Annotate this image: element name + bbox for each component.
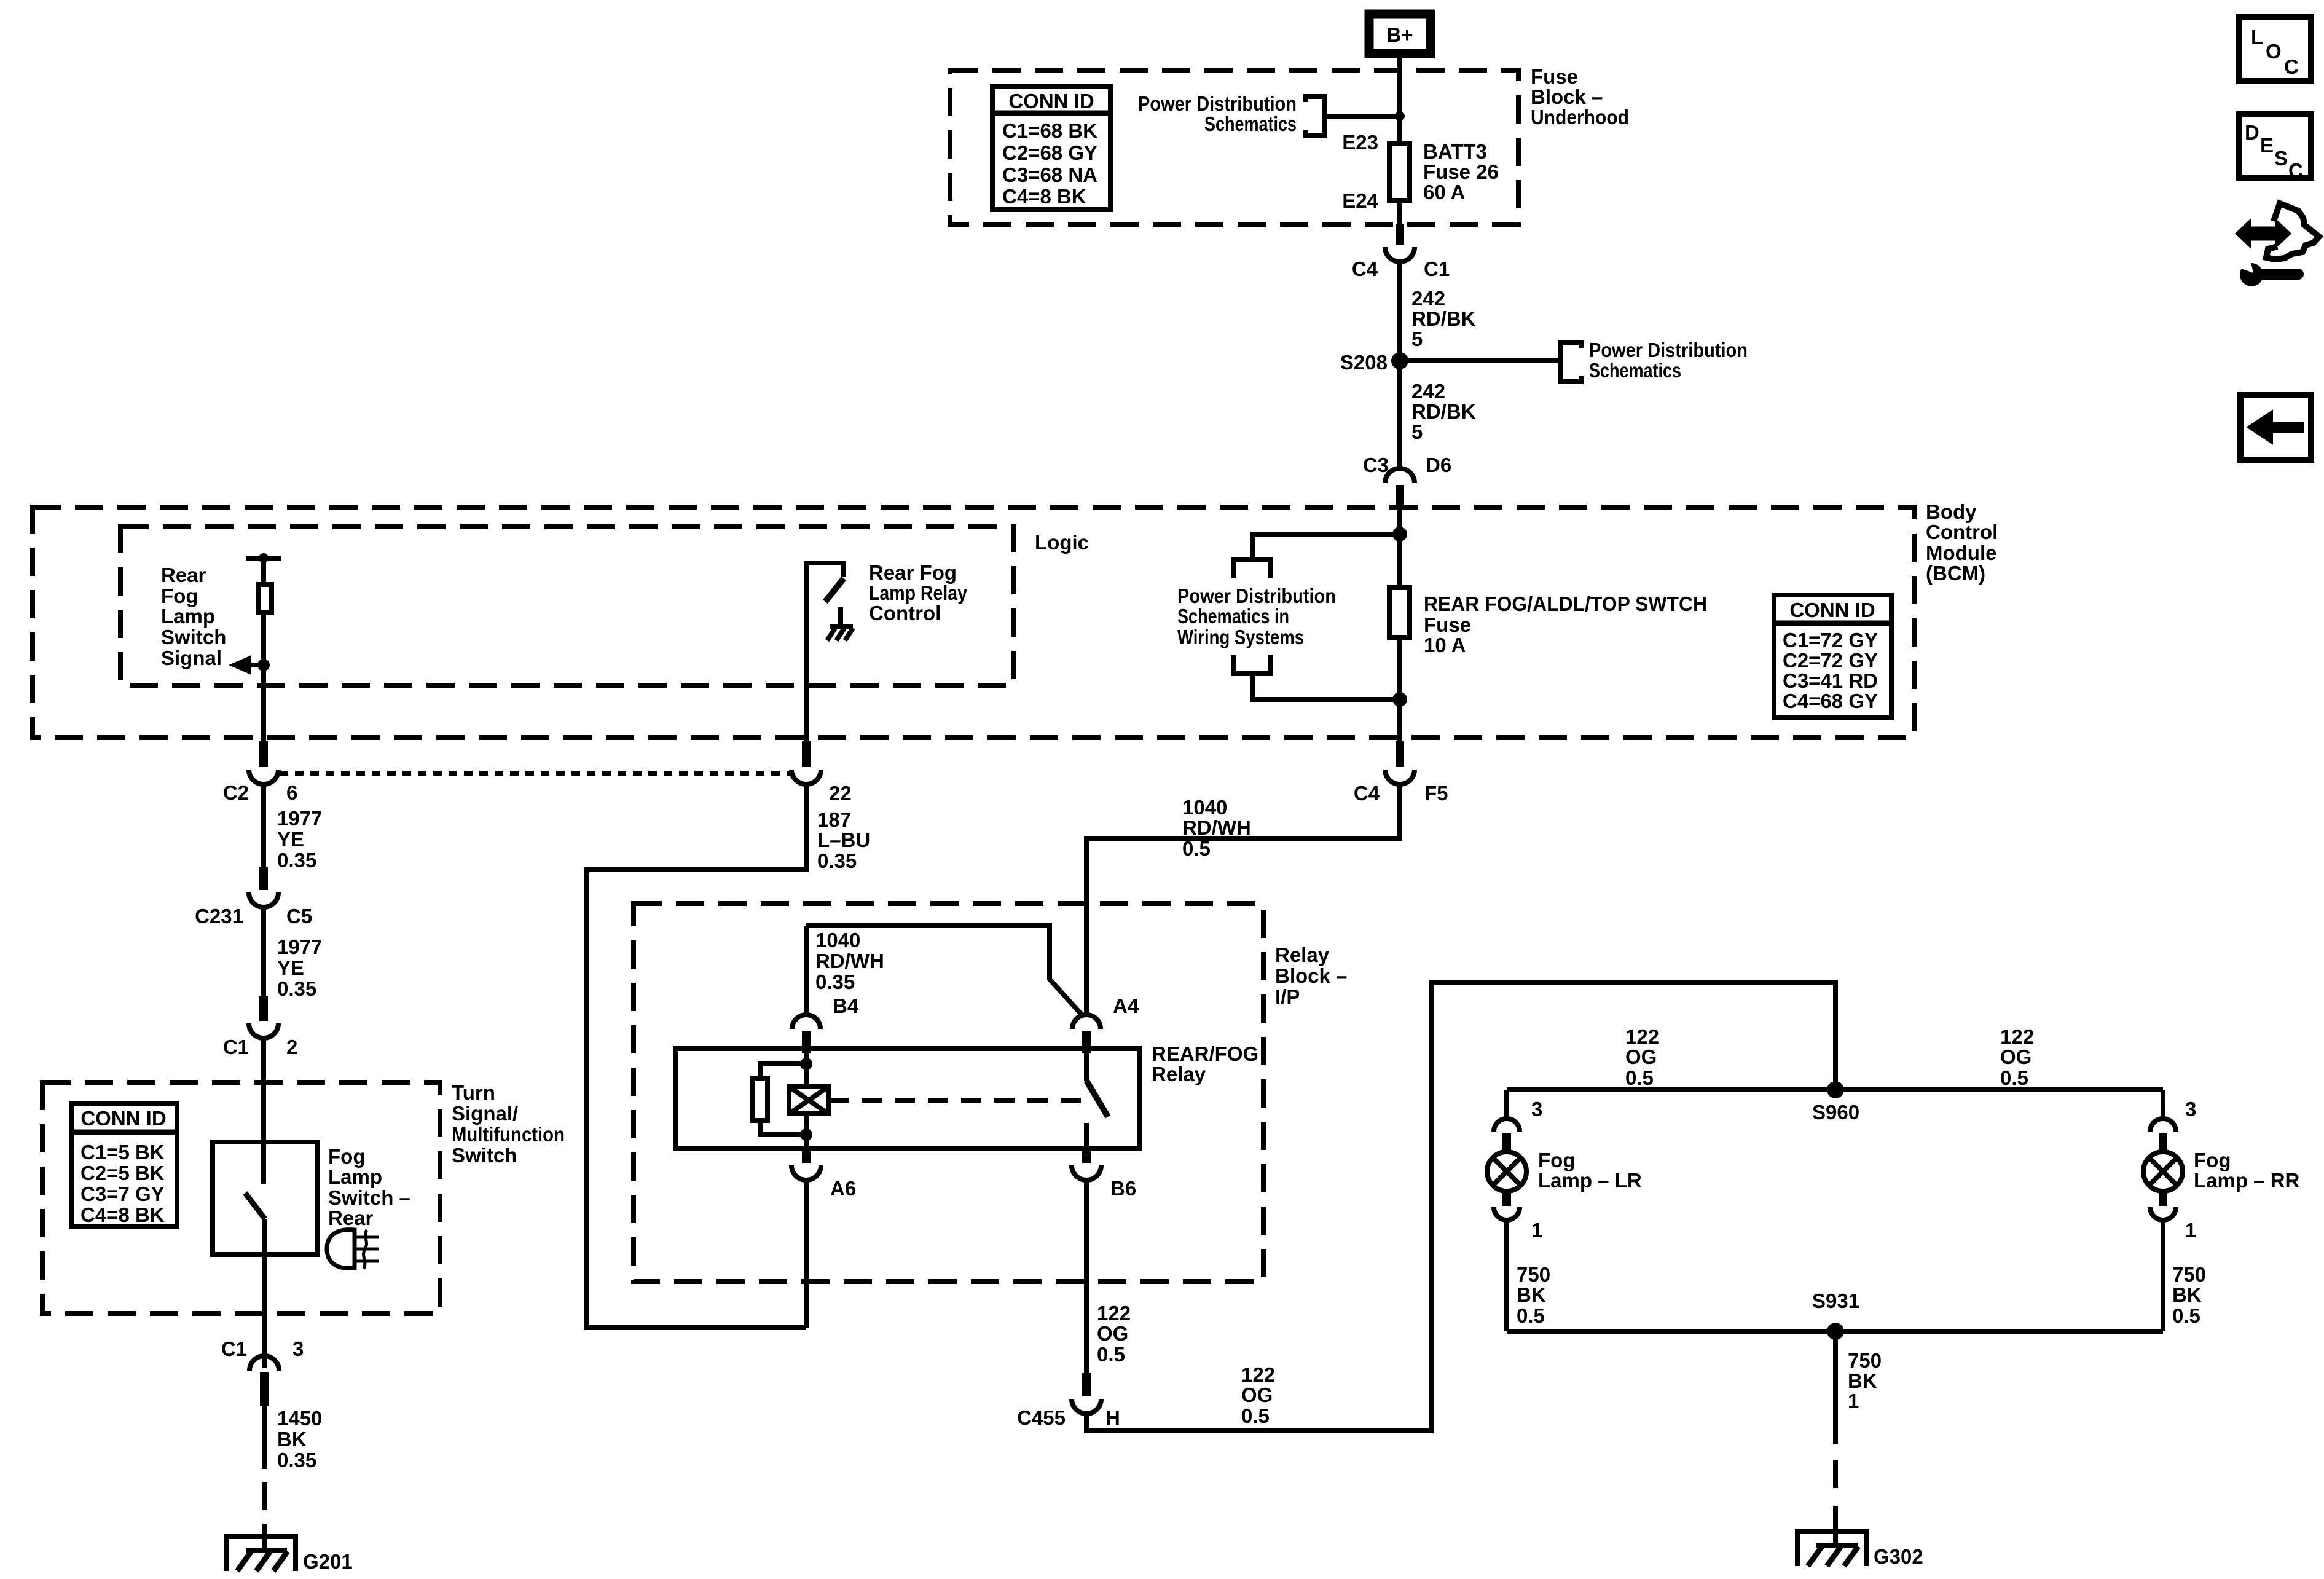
fuse BATT3 Fuse 26 60A bbox=[1389, 140, 1499, 203]
turn signal multifunction switch dashed box bbox=[42, 1082, 440, 1313]
svg-text:0.35: 0.35 bbox=[817, 849, 857, 872]
rear fog lamp relay control driver bbox=[806, 563, 853, 741]
wire 1977 YE upper bbox=[261, 784, 266, 868]
wire 1977 YE lower bbox=[261, 907, 266, 996]
svg-text:OG: OG bbox=[1097, 1322, 1128, 1345]
svg-text:Rear Fog: Rear Fog bbox=[869, 561, 957, 584]
svg-text:122: 122 bbox=[2000, 1025, 2034, 1048]
svg-text:S931: S931 bbox=[1812, 1290, 1859, 1312]
svg-text:H: H bbox=[1105, 1406, 1120, 1429]
svg-text:S960: S960 bbox=[1812, 1101, 1859, 1124]
svg-text:60 A: 60 A bbox=[1423, 181, 1465, 203]
internal bracket upper bbox=[1233, 560, 1271, 578]
wire bracket to trunk bbox=[1325, 114, 1400, 119]
svg-text:6: 6 bbox=[286, 781, 297, 804]
wire into turn signal switch bbox=[261, 1038, 266, 1184]
svg-text:Multifunction: Multifunction bbox=[452, 1123, 565, 1146]
label Rear Fog Lamp Switch Signal bbox=[161, 564, 226, 669]
svg-text:C2: C2 bbox=[223, 781, 249, 804]
svg-text:C2=68 GY: C2=68 GY bbox=[1002, 141, 1097, 164]
svg-text:BK: BK bbox=[2172, 1283, 2202, 1306]
svg-text:Block –: Block – bbox=[1531, 85, 1603, 108]
svg-text:Control: Control bbox=[869, 602, 941, 624]
wire from internal bracket (lower) bbox=[1252, 674, 1400, 699]
wire label 1977 YE 0.35 (upper) bbox=[277, 807, 322, 872]
connector A4 bbox=[1072, 994, 1139, 1053]
svg-text:750: 750 bbox=[1848, 1349, 1882, 1372]
wire 1450 BK 0.35 bbox=[262, 1406, 267, 1469]
dotted harness line C2 to 22 bbox=[280, 771, 790, 776]
svg-text:Logic: Logic bbox=[1035, 531, 1089, 554]
svg-text:C2=5 BK: C2=5 BK bbox=[80, 1162, 165, 1184]
svg-text:Switch: Switch bbox=[452, 1144, 517, 1167]
svg-text:Rear: Rear bbox=[161, 564, 206, 586]
svg-text:C4=8 BK: C4=8 BK bbox=[80, 1203, 165, 1226]
CONN ID table (switch) bbox=[69, 1104, 179, 1227]
svg-text:OG: OG bbox=[1241, 1384, 1273, 1406]
svg-text:750: 750 bbox=[1517, 1263, 1550, 1286]
splice S960 bbox=[1812, 1081, 1859, 1124]
svg-text:Fog: Fog bbox=[161, 585, 198, 607]
svg-text:Lamp Relay: Lamp Relay bbox=[869, 581, 968, 604]
LOC legend box bbox=[2239, 17, 2311, 81]
svg-text:Fuse: Fuse bbox=[1424, 613, 1471, 636]
wire label 122 OG 0.5 (B6) bbox=[1097, 1302, 1131, 1366]
connector C4/F5 bbox=[1354, 741, 1448, 805]
fog lamp feed rail bbox=[1507, 1087, 2163, 1092]
svg-text:Lamp – LR: Lamp – LR bbox=[1538, 1169, 1642, 1192]
label Power Distribution Schematics (S208) bbox=[1589, 339, 1748, 382]
svg-text:REAR/FOG: REAR/FOG bbox=[1152, 1042, 1258, 1065]
svg-text:Fuse: Fuse bbox=[1531, 65, 1578, 88]
svg-text:BK: BK bbox=[277, 1428, 307, 1451]
fog lamp ground rail bbox=[1507, 1329, 2163, 1334]
label Fog Lamp - LR bbox=[1538, 1149, 1642, 1192]
wire label 242 RD/BK 5 (lower) bbox=[1411, 380, 1476, 443]
svg-text:10 A: 10 A bbox=[1424, 634, 1466, 656]
CONN ID table (fuse block) bbox=[990, 87, 1113, 210]
svg-text:YE: YE bbox=[277, 956, 304, 979]
svg-text:2: 2 bbox=[286, 1036, 297, 1058]
body control module dashed box bbox=[33, 507, 1914, 738]
svg-text:242: 242 bbox=[1411, 380, 1445, 403]
svg-text:BATT3: BATT3 bbox=[1423, 140, 1487, 163]
back arrow box bbox=[2240, 395, 2311, 460]
svg-text:Control: Control bbox=[1926, 521, 1998, 543]
label Fog Lamp Switch - Rear bbox=[328, 1145, 410, 1229]
connector B6 bbox=[1072, 1149, 1136, 1200]
svg-text:0.5: 0.5 bbox=[1241, 1404, 1270, 1427]
wire B6 to C455 bbox=[1084, 1180, 1089, 1373]
svg-text:C2=72 GY: C2=72 GY bbox=[1783, 649, 1878, 672]
svg-text:RD/BK: RD/BK bbox=[1411, 307, 1476, 330]
svg-text:Relay: Relay bbox=[1152, 1063, 1206, 1085]
relay block I/P dashed box bbox=[634, 904, 1263, 1282]
svg-text:C1=68 BK: C1=68 BK bbox=[1002, 119, 1097, 142]
svg-text:A4: A4 bbox=[1113, 994, 1139, 1017]
svg-text:0.5: 0.5 bbox=[1517, 1304, 1545, 1327]
wire label 750 BK 1 bbox=[1848, 1349, 1882, 1412]
node junction at B+ feed bbox=[1395, 111, 1405, 121]
svg-text:Lamp – RR: Lamp – RR bbox=[2194, 1169, 2300, 1192]
svg-text:I/P: I/P bbox=[1275, 985, 1300, 1008]
connector A6 bbox=[791, 1149, 856, 1200]
svg-text:C1: C1 bbox=[221, 1337, 247, 1360]
fog lamp LR bbox=[1487, 1098, 1542, 1242]
DESC legend box bbox=[2239, 114, 2311, 182]
svg-text:RD/WH: RD/WH bbox=[815, 950, 884, 972]
wire label 1040 RD/WH 0.5 bbox=[1182, 796, 1251, 860]
svg-text:B6: B6 bbox=[1110, 1177, 1136, 1200]
signal arrow bbox=[229, 655, 270, 675]
svg-text:Schematics in: Schematics in bbox=[1177, 605, 1289, 628]
svg-text:0.5: 0.5 bbox=[1182, 837, 1211, 860]
svg-text:Fog: Fog bbox=[1538, 1149, 1575, 1171]
svg-text:0.5: 0.5 bbox=[2000, 1066, 2028, 1089]
ground G201 bbox=[227, 1537, 353, 1573]
svg-text:5: 5 bbox=[1411, 420, 1423, 443]
svg-text:Signal/: Signal/ bbox=[452, 1102, 518, 1125]
wire into BCM bbox=[1397, 508, 1402, 534]
svg-text:C1=72 GY: C1=72 GY bbox=[1783, 629, 1878, 652]
svg-text:REAR FOG/ALDL/TOP SWTCH: REAR FOG/ALDL/TOP SWTCH bbox=[1424, 593, 1707, 615]
off-page bracket (S208) bbox=[1561, 342, 1581, 382]
label Rear Fog Lamp Relay Control bbox=[869, 561, 968, 624]
wire 242 RD/BK upper bbox=[1397, 262, 1402, 361]
svg-text:Underhood: Underhood bbox=[1531, 106, 1629, 128]
svg-text:E: E bbox=[2260, 134, 2274, 157]
connector C455/H bbox=[1017, 1373, 1120, 1429]
switch blade bbox=[245, 1193, 265, 1219]
svg-text:3: 3 bbox=[1531, 1098, 1542, 1120]
svg-text:E23: E23 bbox=[1342, 131, 1378, 154]
svg-text:Fog: Fog bbox=[328, 1145, 365, 1168]
svg-text:Switch –: Switch – bbox=[328, 1186, 410, 1209]
svg-text:Signal: Signal bbox=[161, 647, 222, 669]
splice S208 bbox=[1340, 351, 1408, 374]
wire B+ to fuse bbox=[1397, 58, 1402, 144]
svg-text:C: C bbox=[2288, 159, 2303, 182]
svg-text:Block –: Block – bbox=[1275, 964, 1347, 987]
svg-text:122: 122 bbox=[1097, 1302, 1131, 1325]
svg-text:C3=7 GY: C3=7 GY bbox=[80, 1183, 165, 1205]
svg-text:122: 122 bbox=[1241, 1363, 1275, 1386]
svg-text:C231: C231 bbox=[195, 905, 243, 927]
connector C1/3 bbox=[221, 1337, 304, 1406]
wire to B4 bbox=[804, 926, 809, 1014]
rear/fog relay box bbox=[675, 1049, 1140, 1149]
label Fog Lamp - RR bbox=[2194, 1149, 2300, 1192]
node below BCM fuse bbox=[1392, 692, 1407, 707]
label Body Control Module (BCM) bbox=[1926, 500, 1998, 585]
relay switch bbox=[1086, 1053, 1108, 1149]
fog lamp icon bbox=[327, 1230, 379, 1269]
svg-text:C1: C1 bbox=[1424, 258, 1450, 280]
wire to fog lamp RR bbox=[2161, 1090, 2165, 1117]
node above BCM fuse bbox=[1392, 527, 1407, 541]
wire switch to box bottom bbox=[262, 1219, 267, 1254]
connector C3/D6 bbox=[1363, 454, 1451, 510]
wire 750 BK 0.5 (LR) bbox=[1504, 1220, 1509, 1331]
label Fuse Block Underhood bbox=[1531, 65, 1629, 128]
fog lamp RR bbox=[2143, 1098, 2196, 1242]
svg-text:C4: C4 bbox=[1352, 258, 1378, 280]
wire 1040 RD/WH 0.35 branch bbox=[806, 926, 1084, 1017]
svg-text:0.35: 0.35 bbox=[277, 1449, 316, 1471]
svg-text:Module: Module bbox=[1926, 541, 1996, 564]
svg-text:A6: A6 bbox=[830, 1177, 856, 1200]
svg-text:RD/BK: RD/BK bbox=[1411, 400, 1476, 423]
svg-text:Power Distribution: Power Distribution bbox=[1589, 339, 1748, 361]
svg-text:CONN ID: CONN ID bbox=[1789, 599, 1875, 621]
svg-text:3: 3 bbox=[2185, 1098, 2196, 1120]
connector 22 bbox=[791, 741, 852, 805]
svg-text:C1: C1 bbox=[223, 1036, 249, 1058]
svg-text:C3=41 RD: C3=41 RD bbox=[1783, 669, 1878, 692]
svg-text:1450: 1450 bbox=[277, 1407, 322, 1430]
svg-text:Schematics: Schematics bbox=[1204, 112, 1297, 135]
svg-text:C3=68 NA: C3=68 NA bbox=[1002, 163, 1097, 186]
connector C4/C1 bbox=[1352, 224, 1450, 280]
svg-text:Body: Body bbox=[1926, 500, 1977, 523]
svg-text:0.5: 0.5 bbox=[1625, 1066, 1654, 1089]
label Power Distribution Schematics (top) bbox=[1138, 92, 1297, 135]
svg-text:Relay: Relay bbox=[1275, 943, 1330, 966]
connector C2/6 bbox=[223, 741, 298, 804]
wire 750 BK 1 bbox=[1833, 1331, 1838, 1444]
relay actuation dashed link bbox=[828, 1098, 1088, 1103]
logic dashed box bbox=[120, 527, 1014, 685]
svg-text:BK: BK bbox=[1848, 1369, 1877, 1392]
connector C1/2 bbox=[223, 996, 298, 1058]
svg-text:0.35: 0.35 bbox=[277, 849, 316, 872]
wire to internal bracket (upper) bbox=[1252, 534, 1400, 560]
wire label 122 OG 0.5 (right) bbox=[2000, 1025, 2034, 1089]
wire label 122 OG 0.5 (run) bbox=[1241, 1363, 1275, 1427]
wire fuse to connector C4/C1 bbox=[1397, 203, 1402, 224]
svg-text:B+: B+ bbox=[1386, 23, 1413, 46]
svg-text:Wiring Systems: Wiring Systems bbox=[1177, 626, 1304, 648]
svg-text:3: 3 bbox=[292, 1337, 304, 1360]
fuse REAR FOG/ALDL/TOP SWTCH 10A bbox=[1389, 588, 1707, 656]
svg-text:187: 187 bbox=[817, 808, 851, 831]
svg-text:(BCM): (BCM) bbox=[1926, 562, 1985, 585]
svg-text:C4=68 GY: C4=68 GY bbox=[1783, 690, 1878, 712]
internal bracket lower bbox=[1233, 655, 1271, 674]
svg-text:YE: YE bbox=[277, 828, 304, 851]
dashed wire to G302 bbox=[1833, 1460, 1838, 1533]
svg-text:122: 122 bbox=[1625, 1025, 1659, 1048]
battery feed B+ box bbox=[1369, 14, 1431, 53]
wire label 1040 RD/WH 0.35 bbox=[815, 929, 884, 993]
svg-text:0.5: 0.5 bbox=[1097, 1343, 1125, 1366]
rear fog lamp switch signal resistor branch bbox=[246, 553, 281, 741]
svg-text:O: O bbox=[2266, 40, 2282, 63]
svg-text:Fog: Fog bbox=[2194, 1149, 2231, 1171]
svg-text:Lamp: Lamp bbox=[161, 605, 215, 628]
svg-text:C3: C3 bbox=[1363, 454, 1389, 476]
svg-text:S208: S208 bbox=[1340, 351, 1388, 374]
svg-text:242: 242 bbox=[1411, 287, 1445, 310]
svg-text:OG: OG bbox=[2000, 1045, 2032, 1068]
wire label 750 BK 0.5 (RR) bbox=[2172, 1263, 2206, 1327]
svg-text:0.5: 0.5 bbox=[2172, 1304, 2200, 1327]
svg-text:Rear: Rear bbox=[328, 1207, 374, 1229]
svg-text:S: S bbox=[2274, 147, 2288, 170]
svg-text:0.35: 0.35 bbox=[277, 977, 316, 1000]
svg-text:0.35: 0.35 bbox=[815, 971, 855, 993]
svg-text:L: L bbox=[2251, 26, 2263, 49]
svg-text:Power Distribution: Power Distribution bbox=[1138, 92, 1297, 115]
svg-text:1977: 1977 bbox=[277, 807, 322, 830]
svg-text:D: D bbox=[2245, 121, 2259, 144]
connector B4 bbox=[792, 994, 859, 1053]
CONN ID table (BCM) bbox=[1772, 595, 1894, 718]
svg-text:C5: C5 bbox=[286, 905, 312, 927]
svg-text:1040: 1040 bbox=[815, 929, 860, 951]
svg-text:G201: G201 bbox=[303, 1550, 353, 1573]
svg-text:L–BU: L–BU bbox=[817, 829, 870, 851]
wire label 242 RD/BK 5 (upper) bbox=[1411, 287, 1476, 350]
wire label 1977 YE 0.35 (lower) bbox=[277, 935, 322, 1000]
svg-text:OG: OG bbox=[1625, 1045, 1657, 1068]
svg-text:RD/WH: RD/WH bbox=[1182, 816, 1251, 839]
wire 1040 RD/WH 0.5 to A4 bbox=[1086, 784, 1400, 1015]
svg-text:5: 5 bbox=[1411, 328, 1423, 350]
svg-text:Lamp: Lamp bbox=[328, 1165, 382, 1188]
label REAR/FOG Relay bbox=[1152, 1042, 1258, 1085]
wire fuse to C4/F5 bbox=[1397, 699, 1402, 741]
wire 750 BK 0.5 (RR) bbox=[2161, 1220, 2165, 1331]
label Power Distribution Schematics in Wiring Systems bbox=[1177, 585, 1336, 648]
wire label 187 L-BU 0.35 bbox=[817, 808, 870, 872]
svg-text:C4: C4 bbox=[1354, 782, 1380, 805]
svg-text:750: 750 bbox=[2172, 1263, 2206, 1286]
svg-text:C455: C455 bbox=[1017, 1406, 1066, 1429]
connector C231/C5 bbox=[195, 867, 312, 927]
svg-text:C4=8 BK: C4=8 BK bbox=[1002, 185, 1086, 208]
svg-text:Power Distribution: Power Distribution bbox=[1177, 585, 1336, 607]
svg-text:1: 1 bbox=[1848, 1390, 1859, 1412]
svg-text:Fuse 26: Fuse 26 bbox=[1423, 160, 1499, 183]
relay coil element bbox=[789, 1087, 828, 1114]
svg-text:Switch: Switch bbox=[161, 626, 226, 648]
fog lamp switch rear box bbox=[213, 1142, 318, 1254]
svg-text:C: C bbox=[2284, 55, 2299, 78]
dashed wire to ground bbox=[262, 1482, 267, 1538]
svg-text:1040: 1040 bbox=[1182, 796, 1227, 819]
wire through BCM fuse bbox=[1397, 534, 1402, 699]
wire C455 to fog lamp loop bbox=[1086, 982, 1835, 1431]
svg-text:D6: D6 bbox=[1426, 454, 1451, 476]
wire box to C1/3 bbox=[262, 1254, 267, 1368]
svg-text:Schematics: Schematics bbox=[1589, 359, 1681, 382]
svg-text:B4: B4 bbox=[833, 994, 859, 1017]
svg-text:G302: G302 bbox=[1874, 1545, 1923, 1568]
label Turn Signal/Multifunction Switch bbox=[452, 1081, 565, 1167]
svg-text:22: 22 bbox=[829, 782, 852, 805]
wiring navigation icon bbox=[2238, 203, 2319, 286]
svg-text:1977: 1977 bbox=[277, 935, 322, 958]
off-page bracket (top) bbox=[1305, 96, 1325, 136]
wire to fog lamp LR bbox=[1504, 1090, 1509, 1117]
wire label 750 BK 0.5 (LR) bbox=[1517, 1263, 1550, 1327]
wire 242 RD/BK lower bbox=[1397, 361, 1402, 468]
wire label 122 OG 0.5 (left) bbox=[1625, 1025, 1659, 1089]
svg-text:CONN ID: CONN ID bbox=[1008, 90, 1094, 112]
svg-text:C1=5 BK: C1=5 BK bbox=[80, 1141, 165, 1164]
wire 187 L-BU detour to A6 bbox=[587, 784, 806, 1328]
label Relay Block I/P bbox=[1275, 943, 1347, 1008]
splice S931 bbox=[1812, 1290, 1859, 1340]
wire S208 to bracket bbox=[1400, 358, 1561, 363]
relay coil circuit bbox=[753, 1053, 812, 1149]
svg-text:E24: E24 bbox=[1342, 189, 1378, 212]
wire label 1450 BK 0.35 bbox=[277, 1407, 322, 1471]
svg-text:F5: F5 bbox=[1424, 782, 1448, 805]
svg-text:CONN ID: CONN ID bbox=[80, 1107, 166, 1130]
svg-text:1: 1 bbox=[1531, 1219, 1542, 1242]
fuse block underhood dashed box bbox=[950, 70, 1518, 224]
svg-text:BK: BK bbox=[1517, 1283, 1546, 1306]
wire A6 down bbox=[804, 1180, 809, 1328]
svg-text:1: 1 bbox=[2185, 1219, 2196, 1242]
svg-text:Turn: Turn bbox=[452, 1081, 495, 1104]
ground G302 bbox=[1797, 1532, 1923, 1568]
